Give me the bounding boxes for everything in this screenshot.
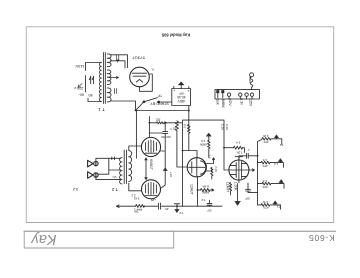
- pilot lamp above strip: [250, 73, 254, 90]
- label R7 470K: [183, 124, 191, 132]
- svg-text:110V.: 110V.: [75, 64, 85, 69]
- terminal strip TS1: [215, 90, 260, 99]
- svg-text:470: 470: [263, 205, 268, 209]
- ground row 1: [276, 138, 278, 139]
- speaker SP2: [88, 172, 99, 179]
- label terminal 4: [239, 98, 243, 105]
- wire RC row: [224, 148, 244, 153]
- label R44: [133, 196, 139, 200]
- label T1: [98, 107, 105, 112]
- svg-text:XOV: XOV: [228, 98, 232, 106]
- wire jack feed vertical: [258, 139, 263, 205]
- terminal 6: [250, 93, 253, 99]
- label .02: [156, 117, 161, 121]
- wire primary top: [86, 63, 102, 71]
- tick marks: [117, 55, 119, 63]
- svg-text:.1: .1: [248, 148, 251, 152]
- wire to bypass cap: [149, 132, 162, 134]
- transformer T2 secondary winding: [120, 158, 122, 184]
- transformer T1 secondary winding HV top: [107, 54, 111, 67]
- svg-text:12AU7: 12AU7: [189, 184, 193, 194]
- svg-text:K: K: [151, 67, 153, 71]
- svg-text:5Y3GT: 5Y3GT: [132, 55, 145, 60]
- wire bus vertical to box: [188, 106, 190, 121]
- label 470 row1: [263, 140, 268, 144]
- svg-text:4MBK: 4MBK: [221, 98, 225, 108]
- label terminal 3: [228, 98, 232, 106]
- label 20: [201, 198, 211, 212]
- svg-text:12AX7: 12AX7: [225, 182, 229, 192]
- svg-text:470: 470: [262, 164, 267, 168]
- label terminal 1: [215, 98, 219, 105]
- filter capacitor can C1: [172, 86, 191, 105]
- svg-text:7W: 7W: [134, 209, 139, 213]
- svg-text:60~: 60~: [78, 93, 84, 97]
- svg-text:115V: 115V: [249, 98, 253, 107]
- label 20-50: [161, 135, 171, 139]
- wire voice coil bottom: [96, 177, 121, 180]
- label 1.0 680K: [200, 139, 207, 146]
- wire screen bus: [135, 111, 137, 159]
- switch STAND BY: [143, 98, 172, 103]
- capacitor C6: [207, 200, 212, 206]
- power tube V2 6V6: [141, 137, 160, 156]
- svg-text:450V: 450V: [177, 99, 185, 103]
- svg-text:2-61: 2-61: [133, 196, 139, 200]
- wire HV to rectifier plate: [111, 55, 128, 68]
- label 5Y3GT: [132, 55, 145, 60]
- label speaker ohms: [73, 187, 78, 192]
- svg-text:3.4K: 3.4K: [225, 124, 229, 131]
- label 2.2K: [131, 193, 136, 197]
- svg-text:FP: FP: [179, 91, 183, 95]
- label plus 25: [151, 198, 169, 211]
- svg-text:K-605: K-605: [308, 233, 334, 243]
- wire V4 plate right: [206, 158, 215, 164]
- resistor RJ2: [261, 161, 271, 164]
- capacitor C4: [160, 123, 167, 188]
- transformer T2 core: [124, 150, 126, 184]
- wire cathode: [117, 205, 183, 207]
- label 6.8K: [201, 184, 208, 188]
- label J1: [274, 162, 278, 166]
- resistor RJ3: [262, 182, 272, 185]
- wire matched pair arrow: [145, 158, 147, 180]
- svg-text:4 W: 4 W: [263, 134, 269, 138]
- tube V4 12AU7: [187, 158, 206, 177]
- wire voice coil top: [96, 158, 121, 161]
- footer rule: [24, 230, 336, 232]
- svg-text:20*: 20*: [206, 208, 211, 212]
- wire voice coil tap: [98, 158, 121, 174]
- wire standby feed: [136, 102, 144, 110]
- label TP: [158, 94, 162, 98]
- label 6V6GT: [149, 159, 153, 169]
- junction dots: [135, 110, 259, 208]
- svg-text:25: 25: [165, 207, 169, 211]
- label VC: [112, 175, 117, 179]
- capacitor C5 25MFD: [159, 203, 161, 209]
- label K: [151, 67, 153, 71]
- svg-text:3.4: 3.4: [208, 155, 212, 159]
- svg-text:3.2: 3.2: [73, 187, 78, 192]
- svg-text:Kay: Kay: [31, 231, 57, 247]
- svg-text:1.00K: 1.00K: [234, 182, 238, 192]
- wire coupling: [149, 117, 181, 137]
- ground row 4: [274, 204, 276, 205]
- wire B+ tap arrow: [111, 76, 119, 93]
- arrow input: [250, 169, 255, 171]
- label 22K: [236, 150, 242, 154]
- transformer T1 secondary winding mid: [107, 70, 111, 85]
- label J2: [279, 143, 283, 147]
- label .05: [244, 197, 249, 201]
- ground row 3: [280, 182, 282, 183]
- wire R6 to V4 grid: [177, 131, 188, 167]
- label 10: [170, 127, 177, 131]
- svg-text:2.2K: 2.2K: [221, 124, 225, 131]
- svg-text:470: 470: [262, 185, 267, 189]
- wire plate V3: [129, 183, 142, 191]
- label 3.4: [236, 141, 241, 145]
- label 4W row1: [263, 134, 269, 138]
- svg-text:T.2K: T.2K: [236, 150, 242, 154]
- svg-text:T.2: T.2: [279, 143, 283, 147]
- label 220v: [74, 86, 84, 90]
- svg-text:470: 470: [263, 140, 268, 144]
- label 4W row2: [262, 158, 267, 162]
- svg-text:6V6GT: 6V6GT: [149, 159, 153, 169]
- wire primary bottom: [86, 76, 102, 102]
- terminal 1: [217, 91, 219, 98]
- transformer T1 core: [103, 53, 105, 104]
- label 12AX7: [225, 182, 229, 192]
- label 4W row4: [263, 200, 269, 204]
- fuse label 50: [78, 93, 92, 97]
- terminal 5: [245, 93, 248, 99]
- transformer T1 primary winding: [100, 63, 102, 102]
- label T2 row4: [276, 205, 280, 209]
- tube V5 12AX7: [229, 157, 249, 183]
- svg-text:680K: 680K: [200, 142, 207, 146]
- label 12AU7: [189, 184, 193, 194]
- wire heater run: [111, 101, 189, 111]
- svg-text:BLK: BLK: [215, 98, 219, 105]
- svg-text:VC: VC: [112, 175, 117, 179]
- resistor R6 vertical: [175, 121, 178, 131]
- jack row 4 wire: [258, 204, 276, 206]
- ground cathode: [174, 203, 180, 205]
- label T2: [111, 187, 118, 192]
- resistor in grid feed: [157, 122, 167, 124]
- label 110V: [75, 64, 85, 69]
- svg-text:6.8K: 6.8K: [201, 184, 208, 188]
- label 470 row2: [262, 164, 267, 168]
- svg-text:50: 50: [88, 93, 92, 97]
- jack row 1 wire: [272, 138, 277, 140]
- resistor R12 6.8K: [201, 189, 211, 192]
- svg-text:R7: R7: [183, 124, 187, 128]
- svg-text:6.3v: 6.3v: [239, 98, 243, 105]
- svg-text:2.2K: 2.2K: [214, 166, 218, 172]
- speaker SP1: [88, 160, 99, 167]
- ground above can: [180, 85, 182, 89]
- svg-text:T.2: T.2: [201, 198, 205, 202]
- bypass cap mark: [163, 168, 167, 171]
- label 470 row4: [263, 205, 268, 209]
- terminal 3: [227, 93, 230, 99]
- rectifier tube V1 5Y3GT: [130, 67, 150, 87]
- svg-text:T 2: T 2: [111, 187, 118, 192]
- label plus marks: [173, 88, 189, 92]
- power tube V3 6V6: [142, 180, 161, 199]
- label 1MEG: [234, 182, 238, 192]
- ground row 2: [280, 161, 282, 162]
- wire plate V2: [129, 146, 142, 150]
- svg-text:TP: TP: [158, 94, 162, 98]
- resistor R13 1MEG vertical: [229, 183, 231, 195]
- svg-text:40-40: 40-40: [177, 95, 185, 99]
- jack row 3 wire: [258, 183, 282, 185]
- svg-text:680K: 680K: [201, 191, 209, 195]
- label 4W row3: [262, 179, 267, 183]
- label 2.2K vertical: [221, 124, 229, 131]
- svg-text:STAND BY: STAND BY: [150, 102, 169, 106]
- svg-text:.02: .02: [156, 117, 161, 121]
- transformer T1 filament winding bottom: [107, 88, 111, 102]
- svg-text:50*: 50*: [244, 197, 249, 201]
- svg-text:3.4: 3.4: [236, 141, 241, 145]
- svg-text:T 1: T 1: [98, 107, 105, 112]
- resistor R8 vertical: [188, 120, 191, 150]
- label can values: [177, 91, 186, 103]
- arrow feedback left: [117, 205, 120, 208]
- svg-text:Kay Model 605: Kay Model 605: [161, 33, 190, 38]
- wire rectifier loop: [140, 74, 153, 91]
- label R9: [208, 155, 219, 173]
- svg-text:1.2: 1.2: [274, 162, 278, 166]
- label .1: [248, 148, 251, 152]
- jack row 2 wire: [258, 162, 281, 164]
- terminal 2: [222, 91, 224, 98]
- svg-text:+: +: [173, 88, 175, 92]
- resistor R11 22K: [234, 146, 243, 149]
- svg-text:T.2: T.2: [179, 211, 183, 215]
- svg-text:+: +: [187, 89, 189, 93]
- transformer T2 primary winding: [129, 151, 132, 182]
- svg-text:+10: +10: [169, 172, 173, 177]
- svg-text:4 W: 4 W: [263, 200, 269, 204]
- wire HV to rectifier plate 2: [111, 61, 126, 68]
- label R44-1 7W: [134, 207, 143, 213]
- terminal 4: [239, 93, 242, 99]
- label lamp: [248, 77, 252, 84]
- svg-text:T.2: T.2: [276, 205, 280, 209]
- junction dot R11: [223, 147, 225, 149]
- svg-text:6MO: 6MO: [248, 77, 252, 84]
- svg-text:+25: +25: [151, 198, 156, 202]
- resistor RJ4: [261, 204, 271, 207]
- wire mid bottom: [183, 205, 223, 207]
- label terminal 2: [221, 98, 225, 108]
- svg-text:220 v.: 220 v.: [74, 86, 84, 90]
- resistor R9 vertical: [206, 168, 213, 179]
- label 680K: [201, 191, 209, 195]
- ground mid resistor: [208, 136, 210, 140]
- resistor RJ1: [262, 137, 272, 140]
- label 470 row3: [262, 185, 267, 189]
- arrow 220v: [78, 84, 82, 88]
- wire V4 cathode: [198, 177, 214, 207]
- resistor R10: [208, 140, 210, 157]
- tick marks T2: [112, 157, 115, 160]
- label terminal 5: [249, 98, 253, 107]
- svg-text:1.5: 1.5: [262, 158, 267, 162]
- svg-text:20= 50: 20= 50: [161, 135, 171, 139]
- capacitor C8: [246, 183, 258, 193]
- wire V4 plate: [183, 151, 198, 158]
- switch SW1: [89, 76, 93, 83]
- Kay logo box: [24, 231, 174, 248]
- junction dot: [188, 110, 190, 112]
- resistor R22 cathode: [136, 204, 145, 207]
- label STAND BY: [150, 102, 169, 106]
- schematic sheet border: [26, 27, 334, 223]
- svg-text:1.5: 1.5: [262, 179, 267, 183]
- ground V5 cathode: [237, 184, 239, 202]
- wire feedback box: [183, 120, 230, 206]
- capacitor C7: [239, 153, 258, 160]
